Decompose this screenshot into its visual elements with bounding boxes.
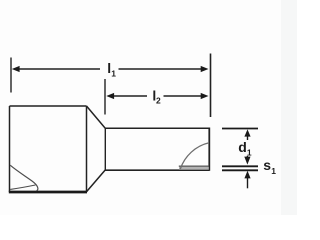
svg-text:s: s	[263, 157, 271, 173]
svg-text:1: 1	[271, 166, 276, 176]
svg-text:2: 2	[156, 95, 161, 105]
svg-text:d: d	[238, 139, 247, 155]
svg-text:1: 1	[111, 69, 116, 79]
